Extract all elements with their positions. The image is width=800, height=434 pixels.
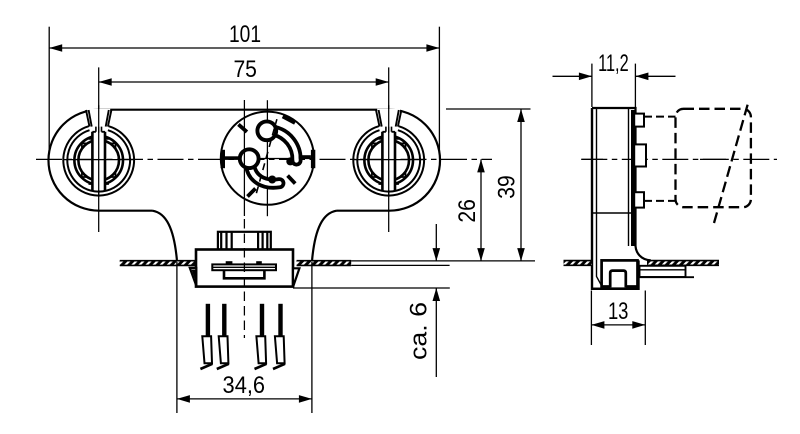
svg-text:101: 101 — [229, 21, 261, 48]
svg-text:39: 39 — [494, 175, 521, 199]
svg-text:11,2: 11,2 — [598, 50, 629, 77]
svg-text:75: 75 — [233, 56, 257, 83]
svg-text:ca. 6: ca. 6 — [405, 302, 432, 360]
svg-text:26: 26 — [454, 199, 481, 223]
svg-text:34,6: 34,6 — [223, 372, 266, 399]
svg-text:13: 13 — [608, 298, 629, 325]
